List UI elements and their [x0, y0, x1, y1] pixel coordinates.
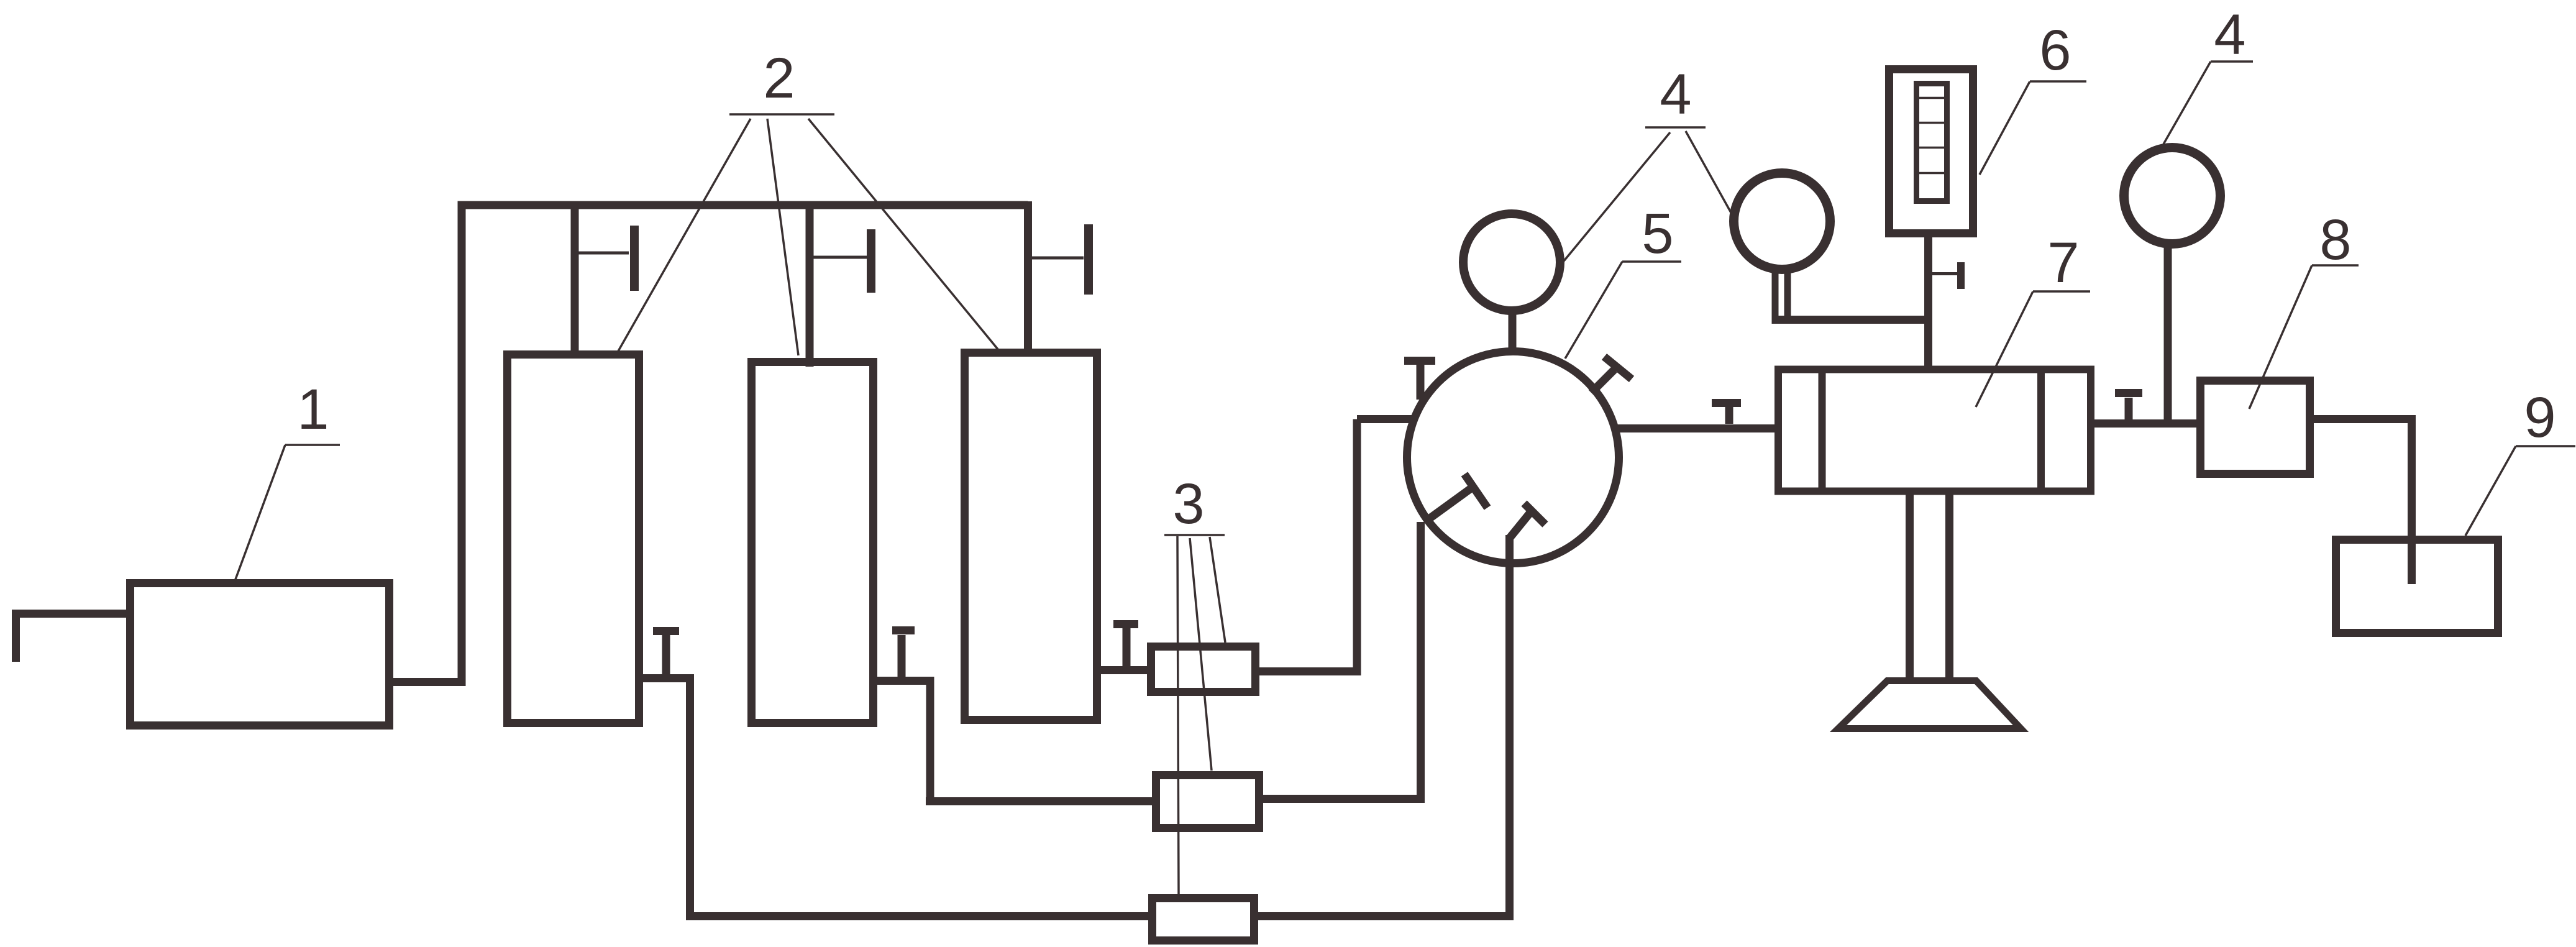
- T-valve mixer outlet: [1712, 403, 1741, 424]
- gauge 4c: [2124, 148, 2221, 244]
- label 4 left: [1564, 127, 1732, 261]
- label 5: [1565, 262, 1681, 359]
- label 7: [1976, 291, 2090, 407]
- inlet pipe hook: [16, 614, 127, 662]
- box 8: [2201, 381, 2310, 474]
- valve on stub 2: [813, 256, 867, 259]
- pipe reactor to box 8: [2090, 419, 2196, 428]
- T-valve column 1 outlet: [653, 631, 679, 675]
- label 9: [2465, 446, 2575, 536]
- svg-text:4: 4: [2214, 3, 2245, 66]
- rotameter 6 inner tube: [1917, 84, 1947, 201]
- pipe 3b to mixer: [1263, 522, 1421, 803]
- svg-text:9: 9: [2524, 386, 2555, 449]
- box 1 gas source: [130, 583, 390, 726]
- svg-text:8: 8: [2319, 208, 2351, 272]
- outlet column 3: [1101, 666, 1147, 674]
- svg-text:3: 3: [1172, 472, 1204, 536]
- flow controller 3b: [1156, 775, 1259, 828]
- gauge 4b: [1734, 173, 1830, 270]
- stub column 1: [571, 209, 579, 354]
- valve mixer upper-left: [1404, 361, 1435, 400]
- stand post: [1910, 493, 1950, 681]
- mixer circle 5: [1407, 352, 1619, 564]
- label 1: [235, 445, 340, 581]
- reactor 7: [1778, 370, 2091, 492]
- header pipe: [458, 201, 1028, 349]
- svg-text:1: 1: [297, 378, 329, 441]
- svg-text:5: 5: [1642, 202, 1673, 265]
- stem to gauge 4a: [1509, 313, 1517, 352]
- column 2a: [508, 355, 639, 723]
- T-valve reactor outlet: [2115, 393, 2142, 420]
- svg-text:7: 7: [2047, 231, 2079, 295]
- svg-text:6: 6: [2039, 19, 2071, 82]
- valve mixer upper-right tilted: [1591, 357, 1632, 393]
- flow controller 3a: [1151, 647, 1256, 692]
- label 2: [618, 114, 998, 355]
- gauge 4a: [1463, 214, 1560, 311]
- pipe 3a to mixer: [1259, 419, 1417, 676]
- gauge 4c stem: [2164, 245, 2172, 424]
- T-valve column 3 outlet: [1113, 624, 1138, 667]
- rotameter scale lines: [1917, 98, 1947, 173]
- stand base: [1838, 681, 2021, 729]
- pipe 3c to mixer: [1258, 535, 1510, 920]
- rotameter 6 outer: [1889, 70, 1973, 234]
- valve on stub 3: [1032, 257, 1084, 260]
- svg-text:4: 4: [1660, 63, 1691, 126]
- column 2b: [752, 362, 874, 723]
- gauge 4b double stem: [1775, 270, 1788, 323]
- label 6: [1980, 81, 2086, 175]
- branch pipe gauge to stem: [1772, 316, 1929, 324]
- pipe mixer to reactor: [1615, 424, 1775, 432]
- box 9: [2336, 540, 2498, 633]
- svg-text:2: 2: [763, 47, 795, 110]
- valve on rotameter stem: [1931, 272, 1958, 275]
- stub column 2: [806, 209, 814, 367]
- label 8: [2249, 265, 2359, 409]
- reactor 7 inner walls: [1822, 373, 2042, 491]
- label 4 right: [2163, 62, 2253, 144]
- pipe box 8 to box 9: [2314, 415, 2412, 584]
- T-valve column 2 outlet: [892, 631, 915, 677]
- outlet column 2: [877, 677, 1152, 802]
- rotameter stem to reactor: [1924, 234, 1932, 367]
- flow controller 3c: [1153, 899, 1254, 941]
- wire box1 to header riser: [393, 205, 462, 686]
- label 3: [1164, 535, 1225, 894]
- valve mixer lower-left tilted: [1425, 474, 1487, 522]
- valve mixer bottom tilted: [1510, 503, 1546, 538]
- column 2c: [965, 353, 1097, 720]
- outlet column 1: [643, 674, 1148, 917]
- valve on stub 1: [578, 252, 629, 255]
